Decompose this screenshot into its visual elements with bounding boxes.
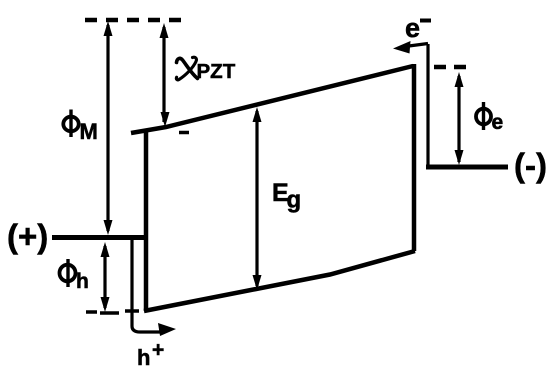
minus tick at conduction band left bbox=[179, 131, 189, 135]
h+ arrowhead (right pointing) bbox=[158, 323, 176, 336]
phi_e arrowhead top bbox=[455, 72, 464, 87]
vacuum level dashed line bbox=[85, 18, 186, 23]
valence band edge bbox=[144, 251, 415, 311]
conduction band edge bbox=[131, 66, 413, 133]
label h+ carrier bbox=[137, 339, 164, 371]
label phi_M bbox=[63, 110, 98, 145]
svg-text:PZT: PZT bbox=[197, 60, 236, 83]
Eg arrowhead bottom bbox=[253, 275, 262, 290]
svg-text:(+): (+) bbox=[7, 218, 48, 255]
phi_h arrowhead bottom bbox=[101, 297, 110, 312]
valence level tick on hole path bbox=[125, 309, 139, 313]
e- electron arrow shaft bbox=[405, 44, 428, 47]
svg-text:M: M bbox=[80, 119, 98, 144]
label chi_PZT bbox=[176, 57, 235, 83]
phi_h arrowhead top bbox=[101, 242, 110, 257]
svg-text:(-): (-) bbox=[514, 147, 547, 184]
phi_h measurement arrow line bbox=[103, 246, 106, 308]
label phi_e bbox=[476, 102, 503, 134]
phi_e measurement arrow line bbox=[457, 76, 460, 162]
PZT left interface edge bbox=[144, 132, 149, 311]
Eg measurement arrow line bbox=[255, 111, 258, 286]
chi_PZT arrowhead top bbox=[160, 23, 169, 38]
svg-text:e: e bbox=[405, 13, 420, 43]
e- arrowhead (left pointing) bbox=[393, 41, 411, 54]
phi_M arrowhead top bbox=[104, 21, 113, 36]
minus sign at valence band left bbox=[86, 310, 97, 314]
phi_M measurement arrow line bbox=[106, 25, 109, 231]
label e- carrier bbox=[405, 13, 431, 43]
(-) electrode Fermi line bbox=[426, 165, 508, 170]
label E_g bbox=[272, 179, 301, 214]
svg-text:g: g bbox=[287, 187, 302, 214]
valence level tick under phi_h arrow bbox=[100, 311, 119, 315]
phi_e arrowhead bottom bbox=[455, 150, 464, 165]
h+ hole path line bbox=[132, 239, 160, 332]
PZT right interface edge bbox=[412, 64, 417, 251]
label phi_h bbox=[60, 259, 89, 293]
e- electron path riser bbox=[426, 44, 429, 167]
svg-text:h: h bbox=[76, 270, 89, 293]
phi_M arrowhead bottom bbox=[104, 220, 113, 235]
chi_PZT measurement arrow line bbox=[162, 27, 165, 122]
chi_PZT arrowhead bottom bbox=[161, 112, 170, 127]
Eg arrowhead top bbox=[253, 107, 262, 122]
conduction band dashed level at right bbox=[434, 65, 468, 70]
(+) electrode Fermi line bbox=[52, 235, 147, 240]
svg-text:h: h bbox=[137, 345, 150, 370]
svg-text:e: e bbox=[492, 111, 504, 134]
svg-text:+: + bbox=[152, 339, 164, 362]
